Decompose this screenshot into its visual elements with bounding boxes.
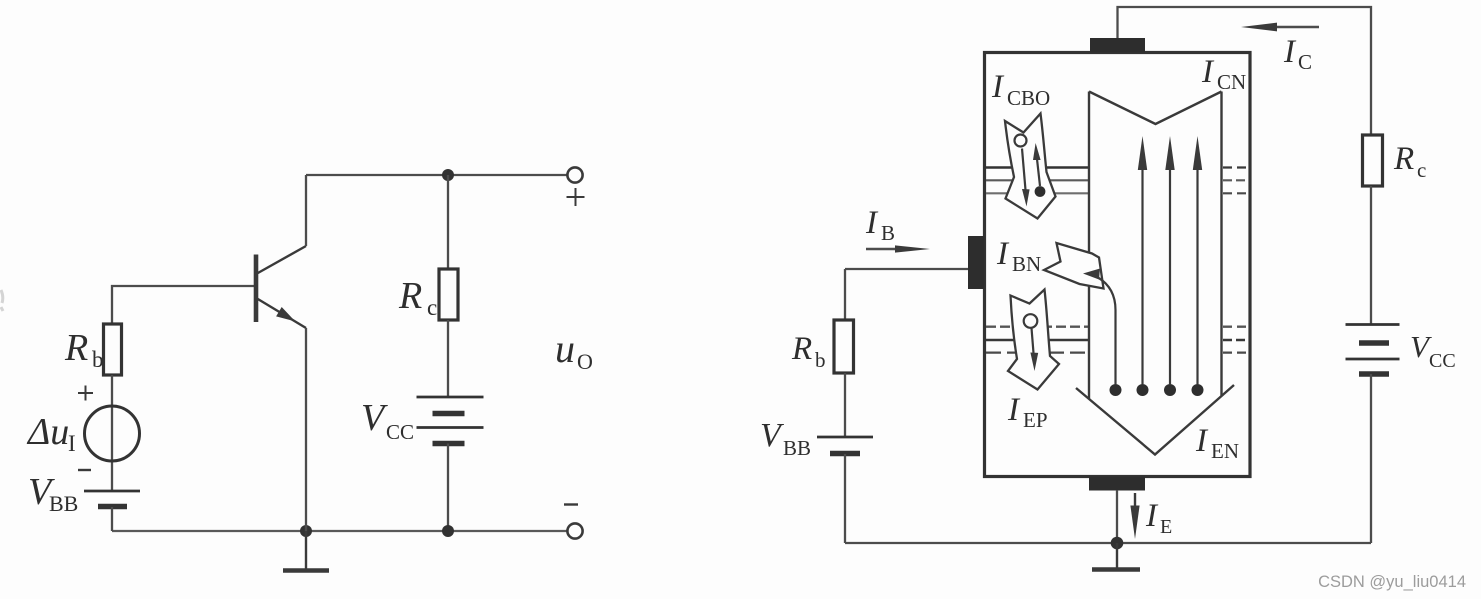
svg-text:BN: BN [1012, 252, 1041, 276]
arrow I_E [1134, 493, 1136, 510]
battery VCC (right circuit) [1346, 325, 1400, 375]
electron dots at emitter [1110, 384, 1122, 396]
svg-text:CSDN @yu_liu0414: CSDN @yu_liu0414 [1318, 573, 1466, 591]
svg-text:I: I [991, 69, 1005, 105]
svg-text:R: R [398, 275, 422, 317]
wire: through source circle [111, 375, 113, 491]
terminal: output - [567, 523, 582, 538]
svg-text:BB: BB [783, 436, 811, 460]
svg-text:I: I [996, 236, 1010, 272]
wire: Vcc to bottom rail [447, 444, 449, 532]
resistor Rc (right circuit) [1363, 135, 1383, 186]
resistor Rb (left circuit) [104, 324, 122, 375]
wire: Rc to Vcc battery [447, 320, 449, 397]
svg-text:Δu: Δu [26, 411, 69, 453]
svg-text:b: b [815, 348, 826, 372]
svg-text:I: I [1201, 54, 1215, 90]
wire: base lead (right circuit) [845, 268, 968, 270]
node: emitter junction dot [300, 525, 312, 537]
svg-text:CC: CC [386, 420, 414, 444]
ribbon arrow I_CBO (leakage across collector junction) [1005, 114, 1056, 219]
svg-text:R: R [791, 331, 812, 367]
ground (right circuit) [1116, 543, 1118, 568]
wire: bottom rail (right circuit) [845, 542, 1371, 544]
svg-text:CN: CN [1217, 70, 1246, 94]
electron flow funnel [1076, 92, 1234, 455]
label: + of source [78, 386, 93, 401]
svg-text:I: I [68, 431, 76, 456]
node: Vcc bottom junction dot [442, 525, 454, 537]
wire: node to Rc [447, 175, 449, 269]
collector contact bar [1090, 38, 1145, 53]
wire: VBB to bottom rail (right) [844, 454, 846, 543]
svg-text:BB: BB [49, 491, 78, 516]
svg-text:c: c [427, 295, 437, 320]
label: + at output [567, 188, 585, 206]
arrow I_C [1258, 26, 1319, 28]
node: emitter junction dot (right) [1111, 537, 1124, 550]
svg-text:I: I [1007, 392, 1021, 428]
resistor Rb (right circuit) [834, 320, 854, 373]
svg-text:EP: EP [1023, 408, 1048, 432]
junction lines: collector junction (top group) [986, 168, 1248, 194]
wire: collector to top rail and right rail [1118, 7, 1372, 135]
wire: Rb to VBB (right) [844, 373, 846, 437]
resistor Rc (left circuit) [439, 269, 458, 320]
junction lines: emitter junction (bottom group) [986, 327, 1248, 353]
svg-text:V: V [361, 397, 388, 439]
curved electron path into base [1098, 278, 1116, 385]
wire: top rail to output terminal [306, 174, 568, 176]
svg-text:R: R [1393, 141, 1414, 177]
label: - at output [564, 503, 578, 505]
svg-text:CC: CC [1429, 350, 1456, 372]
node: collector junction dot [442, 169, 454, 181]
wire: base down to Rb (right) [844, 269, 846, 320]
svg-text:CBO: CBO [1007, 86, 1050, 110]
wire: emitter vertical [305, 328, 307, 531]
svg-text:R: R [64, 327, 88, 369]
wire: VBB to bottom rail [111, 507, 113, 531]
svg-text:I: I [1283, 34, 1297, 70]
source Δu_I (signal source circle) [85, 406, 140, 461]
base contact bar [968, 236, 985, 289]
ribbon arrow I_BN (base recombination) [1044, 243, 1104, 289]
wire: bottom rail [112, 530, 568, 532]
label: - of source [78, 469, 91, 471]
transistor Q (NPN) [256, 246, 306, 328]
terminal: output + [567, 167, 582, 182]
svg-text:I: I [1145, 498, 1159, 534]
svg-text:O: O [577, 349, 593, 374]
svg-text:u: u [555, 326, 575, 371]
arrow I_B [866, 248, 900, 250]
edge artifact mark [1, 290, 3, 311]
wire: emitter contact to bottom rail [1116, 490, 1118, 543]
wire: collector vertical [305, 175, 307, 246]
battery VBB (right circuit) [817, 437, 873, 454]
transistor body rectangle [985, 53, 1251, 477]
wire: VCC to bottom rail (right side) [1370, 374, 1372, 543]
svg-text:B: B [881, 221, 895, 245]
battery VCC (left circuit) [417, 397, 484, 444]
svg-text:EN: EN [1211, 439, 1239, 463]
wire: Rc to VCC battery (right) [1370, 186, 1372, 324]
ground (left circuit) [305, 531, 307, 569]
emitter contact bar [1089, 477, 1145, 491]
battery VBB (left circuit) [84, 491, 140, 507]
svg-text:C: C [1298, 50, 1312, 74]
ribbon arrow I_EP (holes across emitter junction) [1008, 290, 1059, 390]
wire: base lead from Rb to transistor base [112, 286, 254, 325]
svg-text:I: I [865, 205, 879, 241]
svg-text:b: b [92, 347, 104, 372]
svg-text:c: c [1417, 158, 1426, 182]
svg-text:E: E [1160, 516, 1172, 538]
svg-text:I: I [1195, 423, 1209, 459]
arrows I_CN (electron flow upward) [1138, 136, 1202, 384]
